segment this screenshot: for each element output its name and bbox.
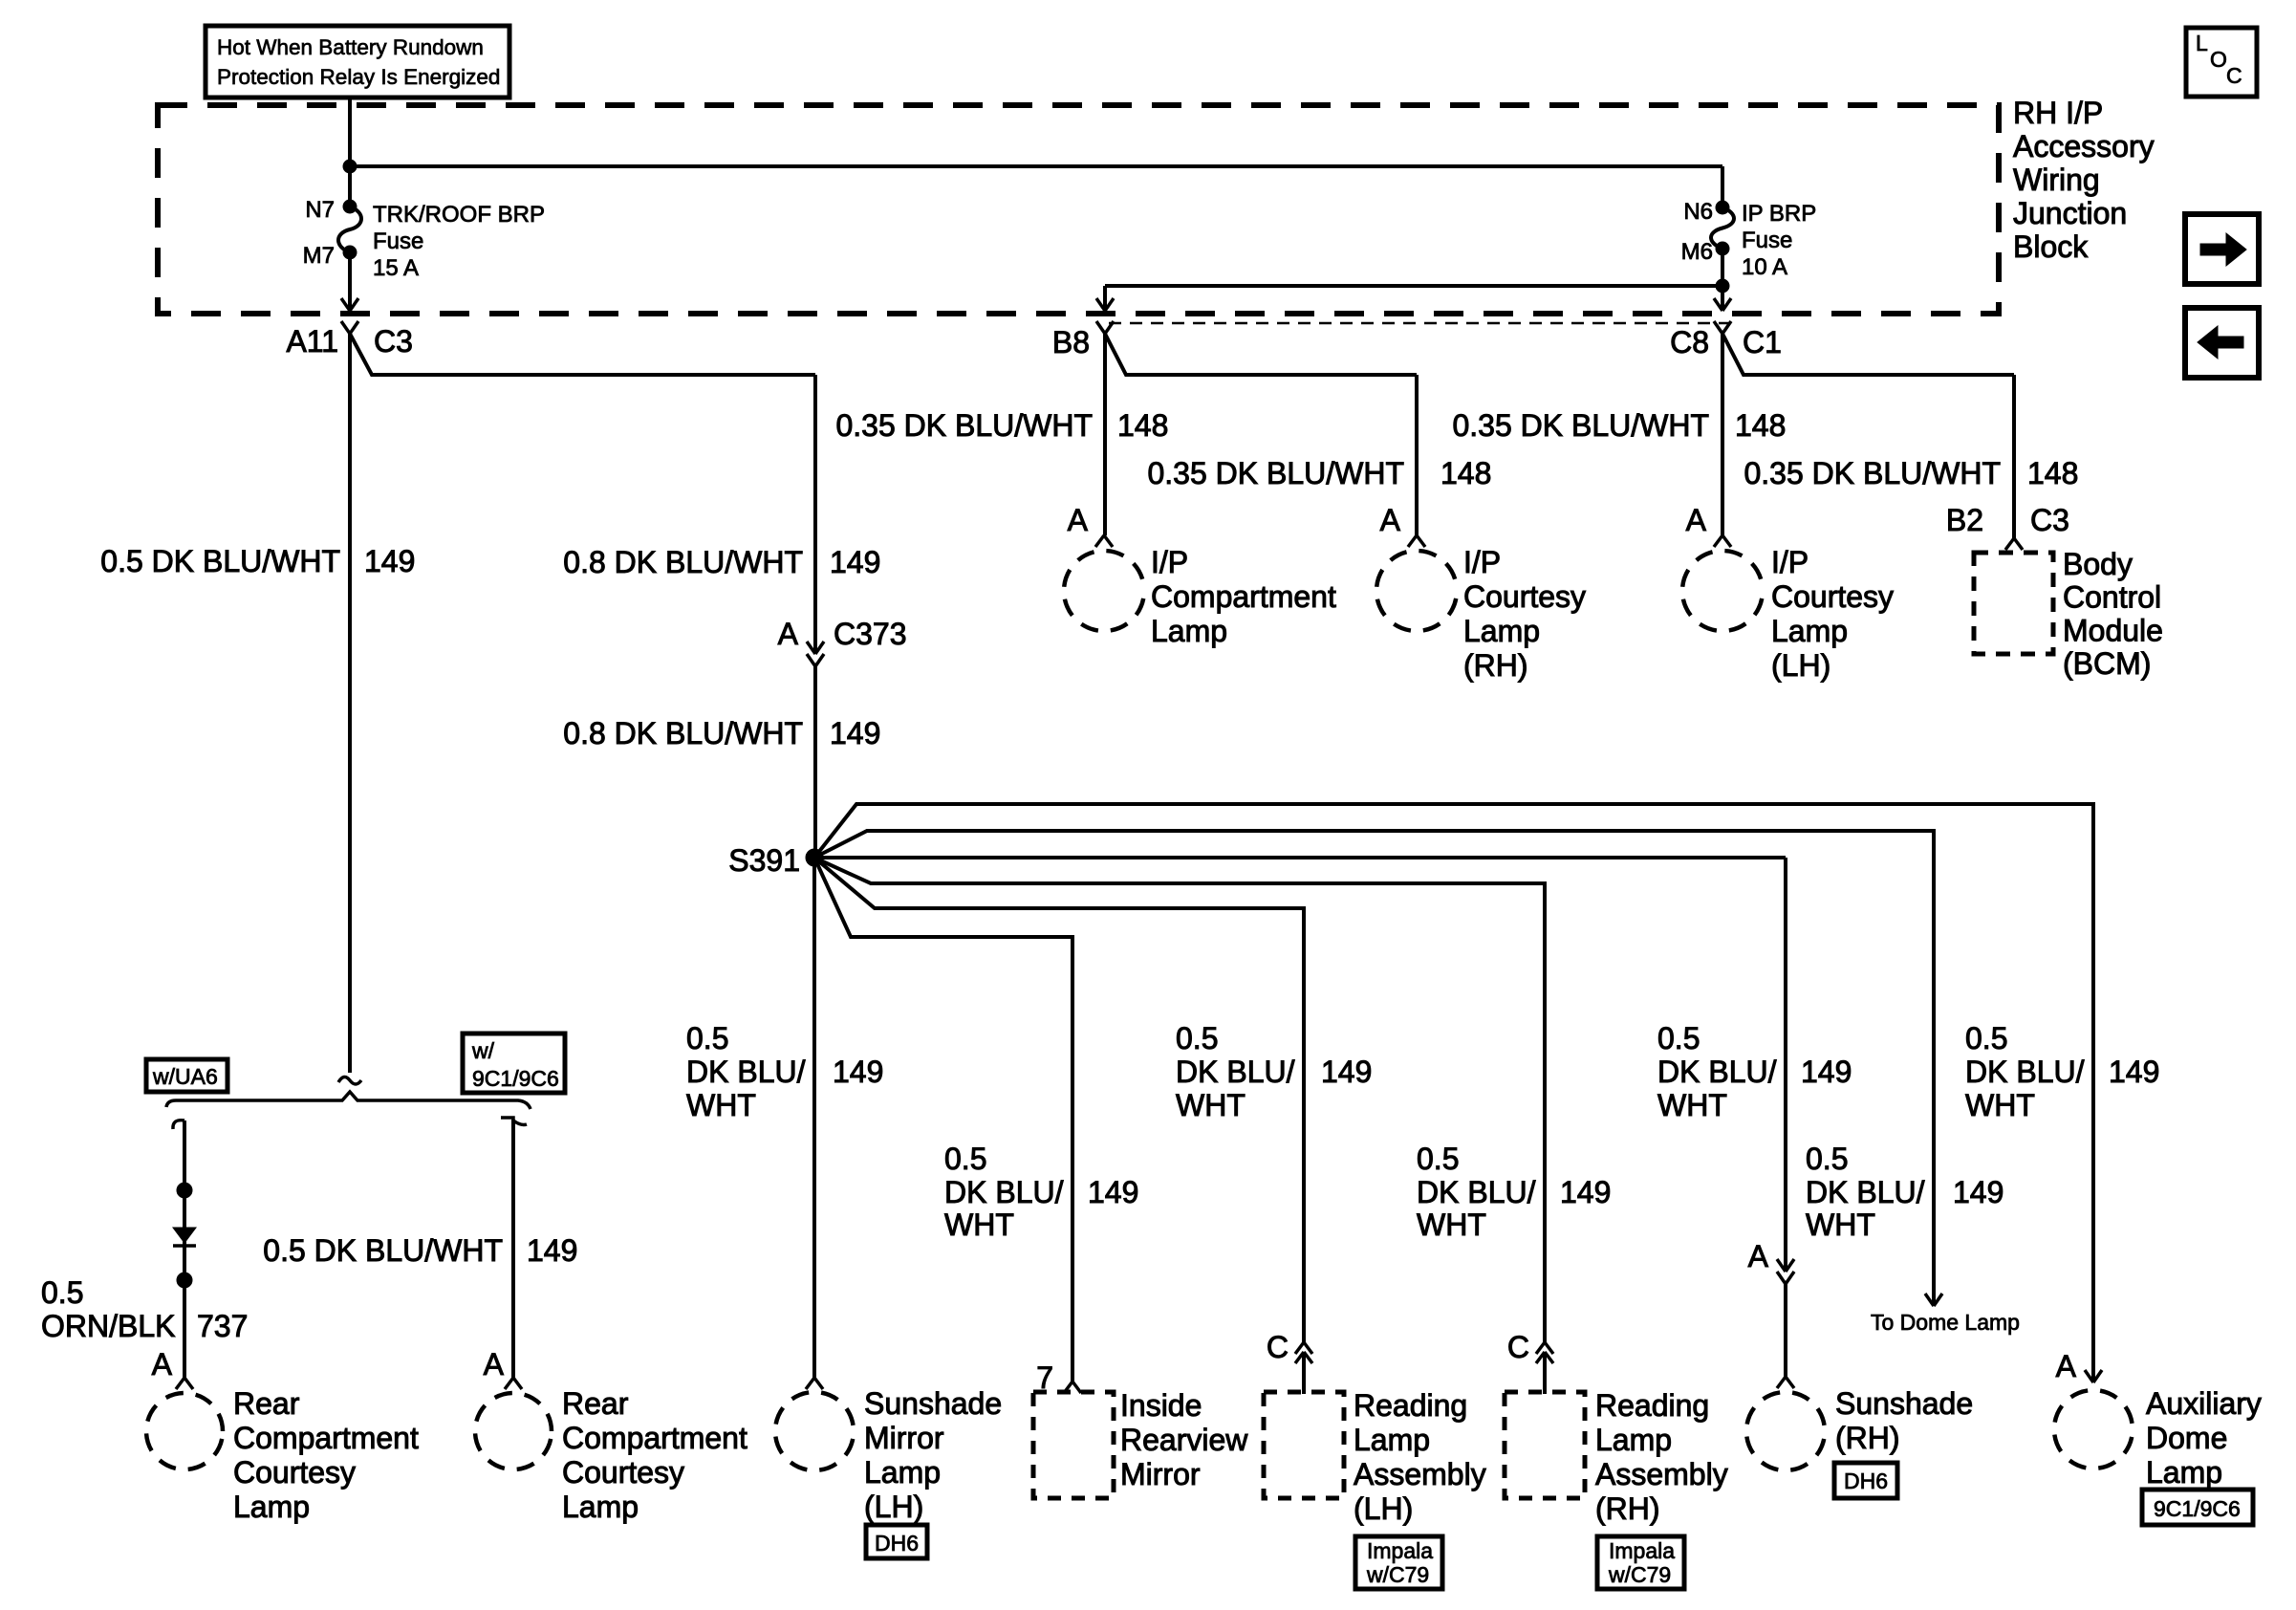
svg-text:S391: S391 bbox=[728, 843, 800, 878]
svg-text:WHT: WHT bbox=[1806, 1207, 1875, 1242]
svg-text:Reading: Reading bbox=[1354, 1388, 1467, 1423]
svg-text:I/P: I/P bbox=[1771, 545, 1809, 579]
svg-text:TRK/ROOF BRP: TRK/ROOF BRP bbox=[373, 202, 545, 228]
svg-text:I/P: I/P bbox=[1463, 545, 1501, 579]
svg-text:15 A: 15 A bbox=[373, 255, 419, 281]
svg-text:N6: N6 bbox=[1683, 199, 1713, 225]
svg-text:0.35 DK BLU/WHT: 0.35 DK BLU/WHT bbox=[1744, 456, 2001, 490]
svg-text:149: 149 bbox=[1953, 1175, 2004, 1209]
svg-text:C: C bbox=[2226, 63, 2242, 88]
svg-text:9C1/9C6: 9C1/9C6 bbox=[472, 1066, 559, 1091]
svg-text:149: 149 bbox=[527, 1233, 577, 1268]
svg-text:149: 149 bbox=[833, 1055, 883, 1089]
svg-text:0.8 DK BLU/WHT: 0.8 DK BLU/WHT bbox=[563, 545, 803, 579]
svg-text:DK BLU/: DK BLU/ bbox=[1176, 1055, 1295, 1089]
svg-text:Lamp: Lamp bbox=[1771, 614, 1848, 648]
svg-text:DK BLU/: DK BLU/ bbox=[1965, 1055, 2085, 1089]
svg-text:Sunshade: Sunshade bbox=[1835, 1386, 1973, 1421]
svg-text:A: A bbox=[484, 1347, 505, 1382]
svg-text:Lamp: Lamp bbox=[1463, 614, 1540, 648]
svg-text:0.5: 0.5 bbox=[41, 1275, 83, 1310]
svg-text:A: A bbox=[778, 617, 799, 651]
svg-text:Courtesy: Courtesy bbox=[233, 1455, 356, 1490]
svg-text:148: 148 bbox=[1440, 456, 1491, 490]
svg-text:Module: Module bbox=[2063, 613, 2163, 647]
svg-text:149: 149 bbox=[1088, 1175, 1138, 1209]
svg-text:0.5: 0.5 bbox=[1965, 1021, 2007, 1055]
svg-text:149: 149 bbox=[364, 544, 415, 578]
svg-text:Mirror: Mirror bbox=[864, 1421, 944, 1455]
svg-text:Lamp: Lamp bbox=[1151, 614, 1227, 648]
svg-text:0.35 DK BLU/WHT: 0.35 DK BLU/WHT bbox=[1147, 456, 1404, 490]
svg-text:C373: C373 bbox=[834, 617, 907, 651]
svg-text:Courtesy: Courtesy bbox=[1463, 579, 1586, 614]
svg-text:0.5: 0.5 bbox=[1176, 1021, 1218, 1055]
svg-text:0.5: 0.5 bbox=[1657, 1021, 1700, 1055]
svg-text:C1: C1 bbox=[1743, 325, 1782, 359]
svg-text:0.5: 0.5 bbox=[944, 1142, 986, 1176]
svg-text:Compartment: Compartment bbox=[562, 1421, 747, 1455]
svg-text:148: 148 bbox=[1735, 408, 1786, 443]
svg-text:ORN/BLK: ORN/BLK bbox=[41, 1309, 175, 1343]
svg-text:C: C bbox=[1267, 1330, 1289, 1364]
svg-text:IP BRP: IP BRP bbox=[1742, 201, 1816, 227]
svg-text:Compartment: Compartment bbox=[233, 1421, 419, 1455]
svg-text:A: A bbox=[1748, 1239, 1769, 1273]
svg-text:Lamp: Lamp bbox=[2146, 1455, 2222, 1490]
svg-text:Body: Body bbox=[2063, 547, 2133, 581]
svg-text:737: 737 bbox=[197, 1309, 248, 1343]
svg-text:w/C79: w/C79 bbox=[1366, 1562, 1429, 1587]
svg-text:(RH): (RH) bbox=[1463, 648, 1528, 683]
svg-text:149: 149 bbox=[1801, 1055, 1852, 1089]
svg-text:Courtesy: Courtesy bbox=[1771, 579, 1894, 614]
svg-text:Rearview: Rearview bbox=[1120, 1423, 1248, 1457]
svg-text:Assembly: Assembly bbox=[1354, 1457, 1486, 1491]
svg-text:Impala: Impala bbox=[1609, 1538, 1675, 1563]
svg-text:C8: C8 bbox=[1670, 325, 1709, 359]
svg-text:Lamp: Lamp bbox=[1595, 1423, 1672, 1457]
svg-text:Protection Relay Is Energized: Protection Relay Is Energized bbox=[217, 65, 500, 89]
svg-text:A: A bbox=[1068, 503, 1089, 537]
svg-text:L: L bbox=[2196, 31, 2208, 55]
svg-text:Fuse: Fuse bbox=[373, 228, 423, 254]
svg-text:Courtesy: Courtesy bbox=[562, 1455, 684, 1490]
svg-text:0.5: 0.5 bbox=[1806, 1142, 1848, 1176]
svg-text:DK BLU/: DK BLU/ bbox=[1806, 1175, 1925, 1209]
svg-text:Wiring: Wiring bbox=[2013, 163, 2100, 197]
svg-text:DK BLU/: DK BLU/ bbox=[1417, 1175, 1536, 1209]
svg-text:w/C79: w/C79 bbox=[1608, 1562, 1671, 1587]
svg-text:Auxiliary: Auxiliary bbox=[2146, 1386, 2262, 1421]
svg-text:0.5 DK BLU/WHT: 0.5 DK BLU/WHT bbox=[263, 1233, 503, 1268]
svg-text:C: C bbox=[1507, 1330, 1529, 1364]
svg-text:A: A bbox=[152, 1347, 173, 1382]
svg-text:A: A bbox=[2056, 1349, 2077, 1383]
svg-text:149: 149 bbox=[830, 545, 880, 579]
svg-text:(RH): (RH) bbox=[1835, 1421, 1900, 1455]
svg-text:Inside: Inside bbox=[1120, 1388, 1202, 1423]
svg-text:Accessory: Accessory bbox=[2013, 129, 2155, 163]
svg-text:0.5: 0.5 bbox=[686, 1021, 728, 1055]
svg-text:B8: B8 bbox=[1052, 325, 1090, 359]
svg-text:DH6: DH6 bbox=[875, 1531, 919, 1556]
svg-text:Block: Block bbox=[2013, 229, 2089, 264]
svg-text:To Dome Lamp: To Dome Lamp bbox=[1871, 1310, 2020, 1335]
svg-text:Lamp: Lamp bbox=[1354, 1423, 1430, 1457]
svg-text:0.5: 0.5 bbox=[1417, 1142, 1459, 1176]
svg-text:Compartment: Compartment bbox=[1151, 579, 1336, 614]
svg-text:0.8 DK BLU/WHT: 0.8 DK BLU/WHT bbox=[563, 716, 803, 751]
svg-text:O: O bbox=[2210, 47, 2227, 72]
svg-text:Junction: Junction bbox=[2013, 196, 2127, 230]
svg-text:Lamp: Lamp bbox=[864, 1455, 941, 1490]
svg-text:WHT: WHT bbox=[1657, 1088, 1727, 1122]
svg-text:RH I/P: RH I/P bbox=[2013, 96, 2103, 130]
svg-text:(LH): (LH) bbox=[1771, 648, 1830, 683]
svg-text:Dome: Dome bbox=[2146, 1421, 2227, 1455]
svg-text:Rear: Rear bbox=[562, 1386, 629, 1421]
svg-text:Control: Control bbox=[2063, 580, 2161, 615]
svg-text:DK BLU/: DK BLU/ bbox=[686, 1055, 806, 1089]
svg-text:DK BLU/: DK BLU/ bbox=[1657, 1055, 1777, 1089]
svg-text:0.35 DK BLU/WHT: 0.35 DK BLU/WHT bbox=[835, 408, 1093, 443]
svg-text:Reading: Reading bbox=[1595, 1388, 1709, 1423]
svg-text:9C1/9C6: 9C1/9C6 bbox=[2154, 1496, 2241, 1521]
svg-text:10 A: 10 A bbox=[1742, 254, 1787, 280]
svg-text:M6: M6 bbox=[1681, 239, 1713, 265]
svg-text:149: 149 bbox=[2109, 1055, 2159, 1089]
svg-text:(LH): (LH) bbox=[1354, 1491, 1413, 1526]
svg-text:149: 149 bbox=[1321, 1055, 1372, 1089]
svg-text:WHT: WHT bbox=[1176, 1088, 1245, 1122]
svg-text:WHT: WHT bbox=[944, 1207, 1014, 1242]
svg-text:C3: C3 bbox=[2030, 503, 2069, 537]
svg-text:B2: B2 bbox=[1946, 503, 1983, 537]
svg-text:(LH): (LH) bbox=[864, 1490, 923, 1524]
svg-text:149: 149 bbox=[830, 716, 880, 751]
svg-text:Assembly: Assembly bbox=[1595, 1457, 1728, 1491]
svg-text:I/P: I/P bbox=[1151, 545, 1188, 579]
svg-text:Fuse: Fuse bbox=[1742, 228, 1792, 253]
svg-text:DH6: DH6 bbox=[1844, 1469, 1888, 1493]
svg-text:Lamp: Lamp bbox=[233, 1490, 310, 1524]
svg-text:w/: w/ bbox=[471, 1038, 495, 1063]
svg-text:DK BLU/: DK BLU/ bbox=[944, 1175, 1064, 1209]
svg-text:WHT: WHT bbox=[686, 1088, 756, 1122]
svg-text:Hot When Battery Rundown: Hot When Battery Rundown bbox=[217, 35, 484, 59]
svg-text:148: 148 bbox=[1117, 408, 1168, 443]
svg-text:(RH): (RH) bbox=[1595, 1491, 1660, 1526]
svg-text:Lamp: Lamp bbox=[562, 1490, 639, 1524]
svg-text:N7: N7 bbox=[305, 197, 335, 223]
svg-text:Mirror: Mirror bbox=[1120, 1457, 1201, 1491]
svg-text:149: 149 bbox=[1560, 1175, 1611, 1209]
svg-text:WHT: WHT bbox=[1417, 1207, 1486, 1242]
svg-text:A: A bbox=[1686, 503, 1707, 537]
svg-text:A11: A11 bbox=[286, 324, 338, 359]
svg-text:0.35 DK BLU/WHT: 0.35 DK BLU/WHT bbox=[1452, 408, 1709, 443]
svg-text:WHT: WHT bbox=[1965, 1088, 2035, 1122]
svg-text:(BCM): (BCM) bbox=[2063, 646, 2151, 681]
svg-text:A: A bbox=[1380, 503, 1401, 537]
svg-text:C3: C3 bbox=[374, 324, 413, 359]
svg-text:w/UA6: w/UA6 bbox=[152, 1064, 218, 1089]
svg-text:Rear: Rear bbox=[233, 1386, 300, 1421]
svg-text:0.5 DK BLU/WHT: 0.5 DK BLU/WHT bbox=[100, 544, 340, 578]
svg-text:Sunshade: Sunshade bbox=[864, 1386, 1002, 1421]
svg-text:Impala: Impala bbox=[1367, 1538, 1433, 1563]
svg-text:M7: M7 bbox=[303, 243, 335, 269]
svg-text:148: 148 bbox=[2027, 456, 2078, 490]
